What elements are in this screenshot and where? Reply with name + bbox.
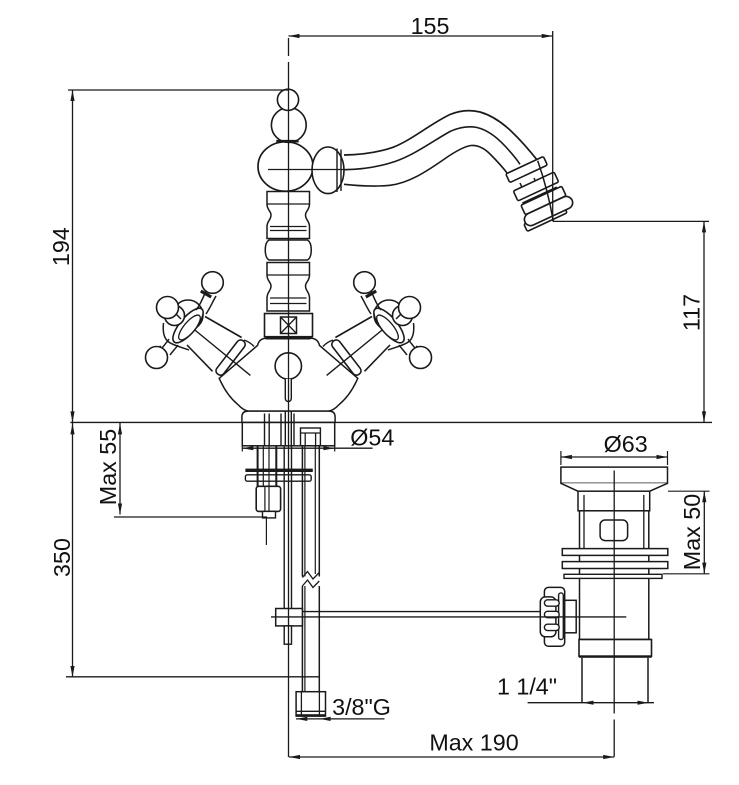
svg-text:350: 350	[49, 538, 75, 577]
svg-text:Ø54: Ø54	[350, 425, 394, 451]
svg-text:Ø63: Ø63	[604, 431, 648, 457]
svg-text:Max 190: Max 190	[429, 730, 518, 756]
svg-text:Max 50: Max 50	[679, 494, 705, 570]
svg-text:117: 117	[679, 294, 705, 331]
svg-text:155: 155	[411, 13, 450, 39]
svg-text:1 1/4": 1 1/4"	[497, 673, 557, 699]
svg-text:3/8"G: 3/8"G	[332, 694, 391, 720]
svg-text:Max 55: Max 55	[95, 429, 121, 505]
svg-text:194: 194	[48, 227, 74, 266]
